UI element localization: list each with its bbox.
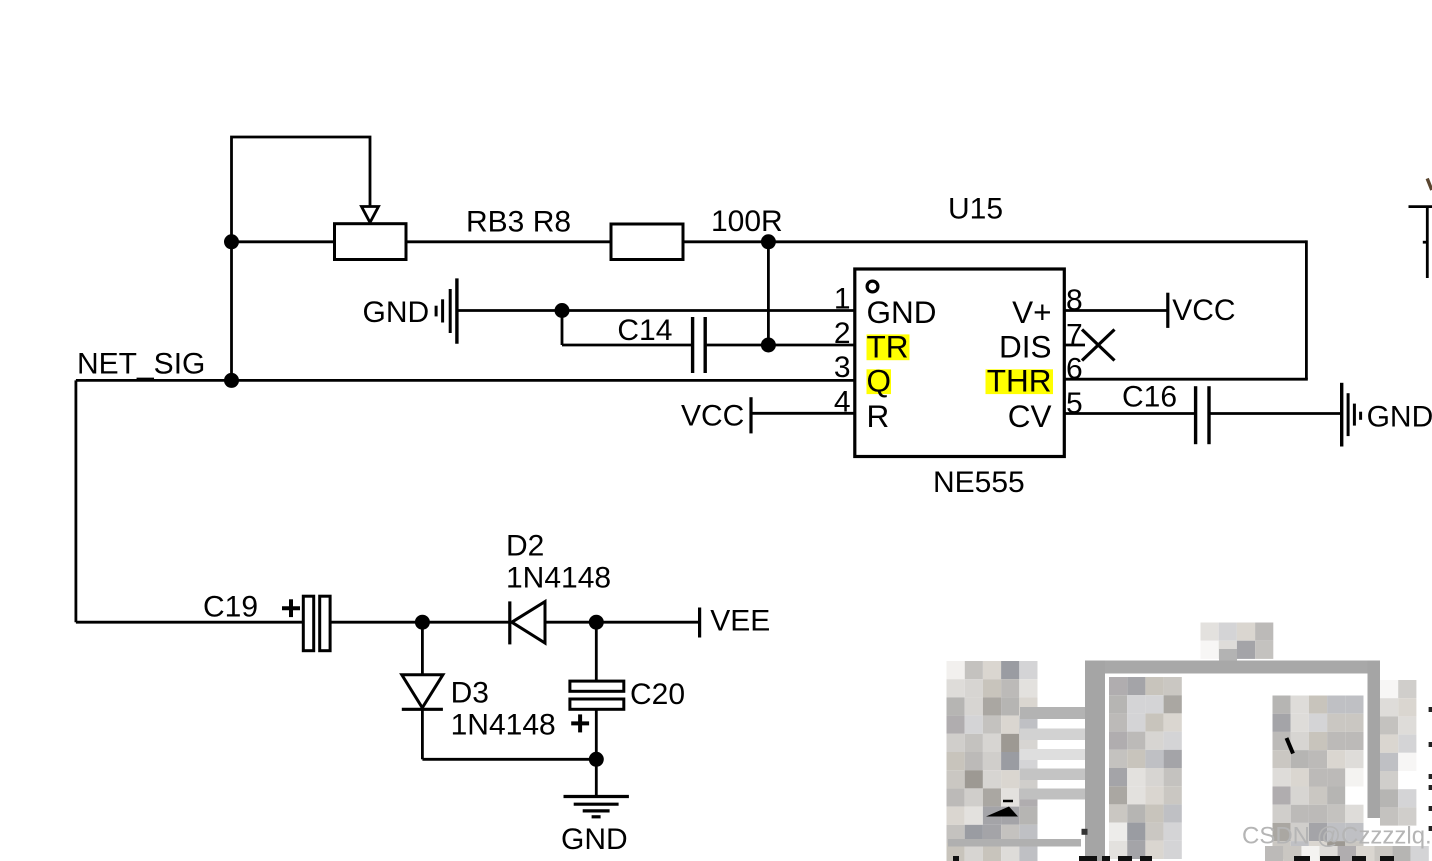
svg-text:V+: V+ <box>1012 294 1051 330</box>
svg-text:VEE: VEE <box>710 605 770 638</box>
svg-text:1N4148: 1N4148 <box>451 709 556 742</box>
svg-text:VCC: VCC <box>1172 294 1235 327</box>
svg-text:100R: 100R <box>711 205 783 238</box>
svg-text:4: 4 <box>834 385 851 418</box>
svg-text:7: 7 <box>1066 319 1083 352</box>
svg-text:6: 6 <box>1066 353 1083 386</box>
svg-text:NE555: NE555 <box>933 466 1025 499</box>
svg-text:1: 1 <box>834 283 851 316</box>
svg-text:GND: GND <box>1367 400 1432 433</box>
svg-text:D3: D3 <box>451 677 489 710</box>
svg-text:8: 8 <box>1066 284 1083 317</box>
svg-text:2: 2 <box>834 317 851 350</box>
svg-text:C20: C20 <box>630 678 685 711</box>
svg-text:U15: U15 <box>948 193 1003 226</box>
svg-text:NET_SIG: NET_SIG <box>77 348 205 381</box>
svg-text:GND: GND <box>561 823 628 856</box>
svg-text:C19: C19 <box>203 591 258 624</box>
svg-text:DIS: DIS <box>999 328 1052 364</box>
svg-text:R: R <box>867 398 890 434</box>
svg-text:CV: CV <box>1008 398 1052 434</box>
svg-text:TR: TR <box>867 328 909 364</box>
svg-text:C16: C16 <box>1122 381 1177 414</box>
svg-text:Q: Q <box>867 363 892 399</box>
svg-text:3: 3 <box>834 351 851 384</box>
svg-text:CSDN @Czzzzlq.: CSDN @Czzzzlq. <box>1242 823 1432 850</box>
svg-text:C14: C14 <box>617 314 672 347</box>
svg-text:1N4148: 1N4148 <box>506 562 611 595</box>
svg-text:D2: D2 <box>506 530 544 563</box>
svg-text:GND: GND <box>363 296 430 329</box>
svg-text:VCC: VCC <box>681 399 744 432</box>
svg-text:5: 5 <box>1066 387 1083 420</box>
svg-text:THR: THR <box>987 363 1052 399</box>
svg-text:RB3 R8: RB3 R8 <box>466 206 571 239</box>
svg-text:GND: GND <box>867 294 937 330</box>
